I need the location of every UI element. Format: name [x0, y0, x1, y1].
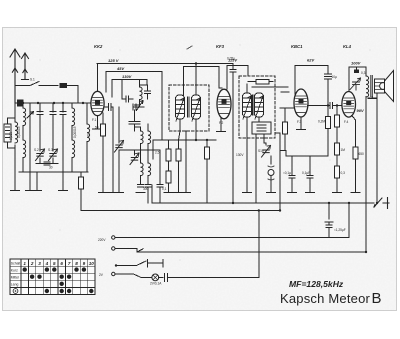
wire T1 secondary top to KF3 top cap	[184, 67, 223, 96]
decoupling rail 156	[280, 151, 328, 157]
wire T2 primary top	[246, 84, 248, 93]
IF T1 primary	[176, 95, 185, 119]
svg-text:Mittel: Mittel	[11, 276, 19, 280]
IF T2 core	[252, 95, 254, 115]
diode load resistor	[284, 108, 286, 151]
svg-text:650: 650	[359, 152, 365, 156]
mains terminal 220V	[112, 236, 115, 239]
wire speaker primary bottom down	[365, 97, 367, 253]
wire L7	[135, 80, 140, 106]
svg-text:F.1: F.1	[92, 118, 96, 122]
rail mid trimmers	[36, 163, 58, 165]
coil L2	[15, 122, 18, 143]
coupling capacitor C14	[330, 102, 333, 108]
svg-text:10: 10	[89, 261, 95, 266]
coil L7 top	[140, 87, 143, 100]
svg-text:300: 300	[143, 187, 149, 191]
ground stub x37	[36, 172, 38, 190]
phono symbol in table	[13, 289, 18, 294]
svg-text:2V/0,1A: 2V/0,1A	[150, 282, 162, 286]
wire KK2 plate to 125V rail	[97, 64, 99, 92]
capacitor C11 to ground	[291, 156, 293, 193]
svg-text:MF=128,5kHz: MF=128,5kHz	[289, 279, 344, 289]
mains line 220V	[115, 203, 349, 238]
svg-text:3: 3	[38, 261, 41, 266]
rail bottom front-end	[19, 171, 88, 173]
osc coil L9	[148, 131, 151, 144]
svg-text:0,1: 0,1	[87, 131, 91, 136]
trimmer arrow string x30	[27, 103, 34, 190]
capacitor C12 to ground	[309, 156, 311, 193]
wire screen drop	[185, 131, 187, 193]
table header labels	[11, 261, 94, 287]
resistor R3 string	[168, 140, 170, 193]
45V rail	[106, 72, 162, 141]
wire antenna line to grid bus	[67, 86, 79, 104]
junction dots on grid bus	[22, 102, 24, 104]
screen resistor R11	[336, 106, 338, 193]
mains terminal 2	[112, 247, 115, 250]
padder coil L11 with cap	[147, 150, 149, 203]
wire KBC1 cathode to ground	[300, 117, 302, 129]
wire T2 primary bottom to ground	[246, 117, 248, 193]
resistor R4 string	[178, 140, 180, 193]
output transformer T3	[366, 76, 372, 99]
terminal 2V	[112, 272, 115, 275]
svg-text:Schalt: Schalt	[11, 261, 20, 265]
svg-text:KBC1: KBC1	[291, 44, 303, 49]
svg-text:10µ: 10µ	[332, 75, 338, 79]
tube KF3	[217, 89, 231, 119]
coil L3 string	[22, 103, 24, 172]
svg-text:1: 1	[23, 261, 26, 266]
svg-text:≈1,25µF: ≈1,25µF	[334, 228, 346, 232]
stray pen mark	[187, 46, 192, 49]
svg-text:45V: 45V	[116, 66, 124, 71]
svg-text:0,3: 0,3	[361, 71, 366, 75]
IF transformer T1 (dashed box)	[169, 85, 209, 131]
tube KK2	[91, 91, 104, 115]
svg-text:130V: 130V	[122, 74, 132, 79]
osc rail	[119, 150, 160, 155]
svg-text:Kurz: Kurz	[11, 268, 18, 272]
antenna coil L1	[14, 103, 16, 190]
capacitor C10 to bus	[159, 150, 161, 203]
trimmer volume	[262, 146, 271, 158]
resistor R6 inside T2	[256, 80, 269, 85]
svg-text:Kapsch MeteorB: Kapsch MeteorB	[280, 290, 382, 307]
svg-text:S.1: S.1	[30, 78, 35, 82]
AVC rail	[153, 140, 216, 159]
62V rail	[295, 66, 328, 95]
osc transformer wires	[135, 124, 149, 150]
svg-text:S.2: S.2	[34, 148, 39, 152]
wire KF3 cathode	[220, 118, 222, 131]
volume trimmer string	[264, 134, 266, 145]
wire KF3 plate to 115V	[227, 66, 248, 90]
ground stub under KK2	[97, 116, 99, 129]
selector table	[10, 259, 95, 295]
table contact dots	[23, 267, 94, 293]
antenna A1	[10, 49, 20, 103]
mains switch step	[115, 249, 366, 253]
capacitor C9 osc	[129, 122, 140, 132]
svg-text:F.4: F.4	[344, 120, 348, 124]
svg-text:1M: 1M	[341, 148, 346, 152]
grid resistor stack R8 R9	[335, 143, 340, 155]
svg-text:0,1µF: 0,1µF	[302, 171, 310, 175]
paper speckles	[39, 44, 370, 260]
capacitor C3 trimmer string	[52, 103, 54, 164]
ground stub x63b	[62, 172, 64, 190]
diode stubs KBC1	[280, 92, 295, 108]
svg-text:4: 4	[45, 261, 49, 266]
svg-text:115V: 115V	[228, 58, 237, 63]
svg-text:2: 2	[30, 261, 34, 266]
svg-text:62V: 62V	[307, 58, 314, 63]
cathode resistor R10 KL4	[352, 116, 356, 193]
detector sub-box	[252, 122, 271, 134]
svg-text:0,2M: 0,2M	[318, 120, 325, 124]
resistor R1 to lower bus	[80, 172, 82, 211]
svg-text:5: 5	[53, 261, 56, 266]
resistor R2 cathode KK2	[102, 113, 104, 193]
svg-text:0,00015: 0,00015	[73, 126, 77, 138]
wire T1 secondary bottom to AVC	[195, 119, 197, 140]
ground antenna	[11, 190, 19, 192]
svg-text:0,010: 0,010	[9, 132, 13, 140]
wire T1 primary bottom	[179, 119, 181, 140]
svg-text:8: 8	[75, 261, 78, 266]
component on bus	[18, 100, 24, 106]
screen rail 87	[252, 86, 288, 88]
trimmer S4 osc	[133, 101, 144, 122]
dial lamp circuit	[115, 274, 152, 277]
IF T2 primary	[243, 93, 252, 117]
resistor R5 to bus	[206, 140, 208, 203]
svg-text:7: 7	[68, 261, 71, 266]
padder coil L10 with cap	[140, 150, 142, 184]
svg-text:S10: S10	[258, 149, 264, 153]
capacitor 0,05u on B+ riser	[230, 70, 236, 73]
wire KBC1 plate to coupling cap	[308, 105, 343, 107]
svg-text:50: 50	[95, 126, 99, 130]
capacitor C6 on rail	[44, 162, 50, 165]
trimmer C8 string	[118, 107, 120, 193]
svg-text:220V: 220V	[98, 238, 106, 242]
IF T1 secondary	[192, 95, 201, 119]
wire speaker field to earth bus	[376, 93, 378, 203]
antenna A2	[22, 53, 29, 80]
svg-text:Lang: Lang	[11, 283, 19, 287]
component 30 on antenna line	[60, 83, 67, 87]
tone trimmer KL4	[350, 78, 361, 90]
IF T2 tuning arrows	[243, 96, 251, 119]
pickup jack	[270, 156, 272, 193]
electrolytic C13 inline	[325, 66, 332, 117]
smoothing capacitor C15	[325, 203, 333, 237]
tube KBC1	[294, 89, 308, 117]
lower bus y210	[81, 210, 280, 212]
IF transformer T2 (dashed box)	[239, 76, 275, 138]
svg-text:KF3: KF3	[216, 44, 225, 49]
coil L4 string	[71, 103, 73, 172]
wire main grid bus	[15, 102, 92, 104]
130V rail	[112, 80, 147, 98]
capacitor C2 trimmer string	[39, 103, 41, 164]
trimmer S5 osc	[130, 153, 139, 165]
coil L6 string	[86, 103, 88, 172]
blob capacitor on 100V rail	[354, 69, 359, 73]
svg-text:100V: 100V	[351, 61, 361, 66]
osc grid cap C8b	[122, 80, 133, 103]
tube KL4	[342, 92, 356, 118]
svg-text:S.3: S.3	[48, 148, 53, 152]
100V rail to output transformer	[349, 67, 366, 92]
switch S1 on antenna line	[15, 82, 58, 86]
capacitor C9b	[144, 85, 150, 99]
svg-text:125 V: 125 V	[108, 58, 119, 63]
svg-text:0,3: 0,3	[341, 171, 346, 175]
svg-text:KK2: KK2	[94, 44, 103, 49]
svg-text:2,5: 2,5	[155, 151, 160, 155]
capacitor C4 string	[62, 103, 64, 172]
svg-text:9: 9	[83, 261, 86, 266]
svg-text:KL4: KL4	[343, 44, 352, 49]
capacitor C7 grid KK2	[105, 104, 113, 193]
IF T2 secondary	[255, 93, 264, 117]
svg-text:90V: 90V	[357, 108, 364, 113]
svg-text:0,00015: 0,00015	[17, 126, 21, 138]
svg-text:130V: 130V	[236, 153, 244, 157]
speaker LS	[375, 71, 394, 102]
svg-text:30: 30	[49, 166, 53, 170]
svg-text:6: 6	[60, 261, 63, 266]
feedback vertical bold	[275, 133, 280, 211]
mains earth symbol	[374, 198, 389, 209]
wire T2 secondary bottom	[256, 117, 259, 203]
wire T1 primary top to B+	[195, 64, 197, 96]
IF T1 tuning arrows	[176, 98, 184, 121]
IF T1 core	[187, 97, 189, 117]
svg-text:≈0,1µ: ≈0,1µ	[283, 171, 291, 175]
resistor R7 plate KBC1	[326, 117, 331, 129]
125V rail	[97, 64, 233, 204]
svg-text:0,1: 0,1	[162, 187, 167, 191]
contact with bar	[116, 260, 163, 267]
earth bus y203	[152, 185, 374, 203]
osc coil L8	[141, 131, 144, 144]
